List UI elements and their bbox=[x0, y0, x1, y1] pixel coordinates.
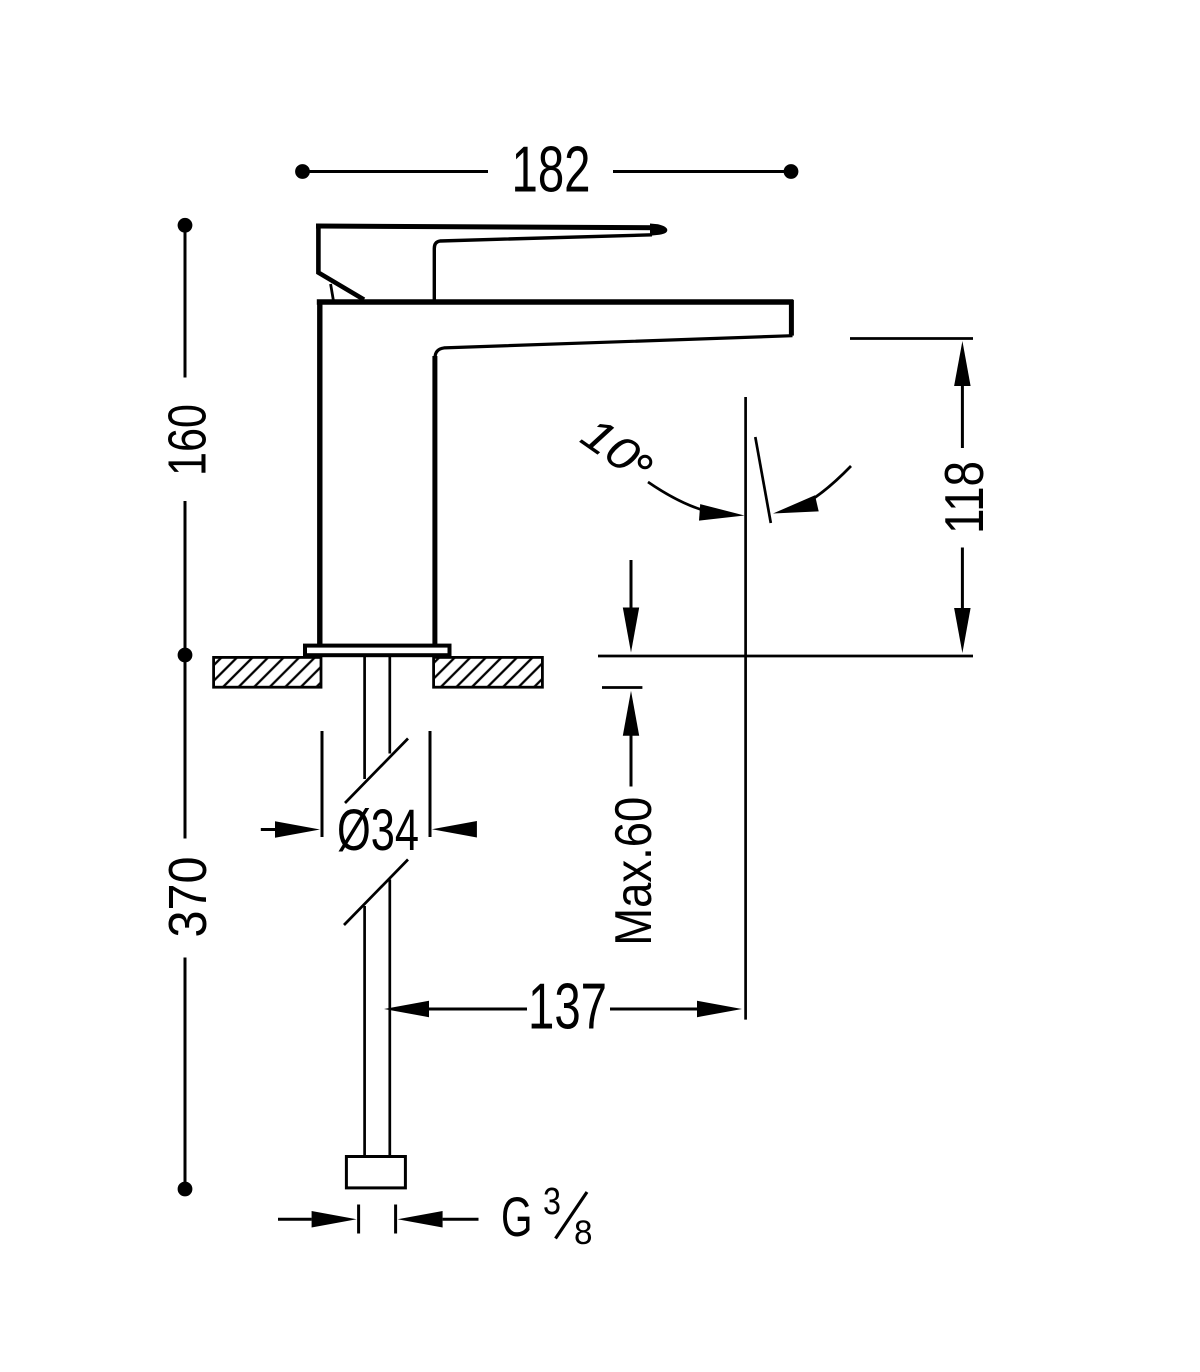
svg-text:182: 182 bbox=[512, 133, 591, 206]
svg-text:3: 3 bbox=[543, 1181, 561, 1223]
svg-text:Ø34: Ø34 bbox=[337, 798, 419, 863]
svg-text:10: 10 bbox=[572, 407, 650, 483]
svg-text:118: 118 bbox=[933, 461, 995, 534]
svg-text:G: G bbox=[501, 1185, 533, 1248]
svg-text:8: 8 bbox=[574, 1214, 593, 1252]
svg-text:Max.60: Max.60 bbox=[605, 797, 663, 946]
svg-text:370: 370 bbox=[158, 857, 218, 938]
svg-text:137: 137 bbox=[528, 970, 607, 1043]
svg-text:160: 160 bbox=[158, 404, 218, 476]
